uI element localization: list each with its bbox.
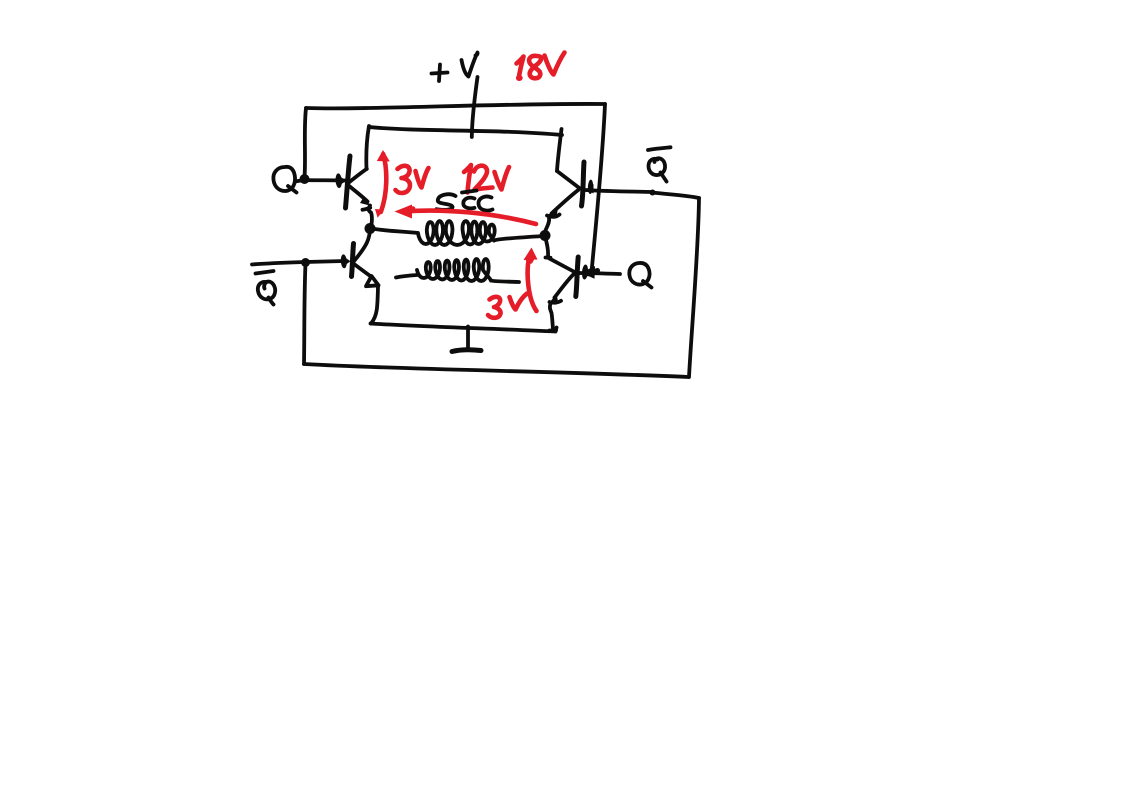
label Q (top-left input) — [273, 167, 295, 191]
label Qbar (left) overbar — [256, 271, 274, 274]
transistor Q3 base bar — [352, 244, 354, 277]
primary winding L1 right lead — [494, 236, 544, 241]
label V of +V — [462, 53, 478, 77]
annotation 12V digit 1 — [464, 165, 471, 193]
node B (right output node) — [540, 230, 551, 241]
transistor Q4 collector lead from node B — [545, 236, 548, 257]
transistor Q4 emitter — [555, 274, 575, 298]
wire Vcc inner rail right drop to Q2 collector — [557, 129, 562, 171]
wire Q2 emitter to node B — [545, 218, 550, 233]
label Qbar (left) Q — [258, 282, 275, 300]
wire Q label to node — [295, 180, 304, 182]
wire +V supply lead — [472, 77, 478, 137]
arrow ticks on Q4 base (bold) — [581, 264, 588, 279]
transistor Q1 base bar — [346, 156, 351, 208]
transistor Q3 collector (node A down) — [353, 229, 371, 263]
annotation 12V digit 2 — [474, 166, 493, 190]
label Qbar (top right) Q — [649, 158, 666, 175]
annotation 3V (bottom) letter v (checkmark) — [510, 294, 528, 310]
annotation red long arrow (sec/12V pointing to L1) — [403, 211, 536, 224]
transistor Q1 emitter — [347, 185, 367, 202]
wire Q-net left vertical (to Q input node) — [305, 108, 307, 177]
wire Qbar-net bottom rail — [304, 364, 688, 377]
transistor Q2 base bar — [582, 162, 585, 206]
wire Vcc inner rail top — [369, 127, 562, 135]
annotation red double arrow 3V (top-left) — [381, 154, 386, 212]
annotation 18V : digit 8 — [529, 56, 541, 78]
wire Q4 emitter down to ground rail — [550, 304, 557, 331]
arrow tick on Q1 base — [335, 173, 342, 188]
wire Q-net top rail — [306, 104, 605, 108]
transistor Q4 base bar — [576, 257, 578, 297]
annotation sec letter s (black) — [437, 194, 456, 210]
node A (left output node) — [365, 223, 376, 234]
annotation sec letter c — [478, 196, 492, 210]
arrow tick on Q2 base — [588, 179, 594, 194]
node Qbar input junction — [301, 258, 310, 267]
wire ground rail (inner bottom) — [371, 324, 557, 332]
wire Q3 base lead — [306, 261, 346, 262]
transistor Q1 collector — [347, 169, 367, 184]
secondary winding L2 coil — [417, 259, 491, 281]
wire Qbar input lead (left) — [252, 262, 304, 265]
wire Q2 base lead to Qbar rail — [585, 190, 653, 192]
annotation 3V (top) digit 3 — [396, 166, 410, 193]
label Q (bottom right) — [629, 263, 649, 285]
transistor Q2 collector — [557, 171, 579, 188]
primary winding L1 left lead — [375, 229, 418, 233]
wire Q-net right vertical (to Q4 base) — [592, 104, 606, 272]
junction dot on Qbar rail — [650, 190, 656, 196]
node Q input (junction of Q label wire, top rail, Q1 base) — [300, 174, 310, 184]
annotation red curved arrow to node B — [528, 256, 537, 311]
arrowhead Q1 emitter — [360, 197, 371, 206]
wire Qbar-net right vertical — [689, 198, 699, 377]
annotation 3V (top) letter V — [416, 168, 429, 188]
transistor Q3 emitter — [353, 263, 371, 277]
secondary winding L2 right lead — [491, 281, 519, 283]
wire Q4 base lead — [578, 273, 620, 274]
open arrowhead Q3 emitter — [366, 276, 379, 286]
transistor Q4 collector diagonal — [546, 258, 575, 273]
annotation 3V (bottom) digit 3 — [488, 297, 501, 318]
arrowhead Q4 emitter — [549, 294, 559, 305]
arrow tick on Q3 base — [340, 254, 347, 268]
annotation sec letter e (c with bar) — [462, 191, 477, 193]
ground symbol stem — [466, 327, 470, 348]
secondary winding L2 left lead — [396, 275, 417, 278]
label +V plus sign — [432, 73, 448, 74]
annotation 18V (red) : digit 1 — [517, 57, 524, 79]
annotation 18V : letter V — [545, 53, 565, 75]
arrowhead Q2 emitter — [547, 206, 559, 217]
wire Qbar-net left vertical — [304, 263, 306, 364]
annotation 12V letter V — [495, 167, 510, 190]
transistor Q2 emitter — [552, 190, 579, 214]
label Qbar (top right) overbar — [648, 147, 671, 150]
primary winding L1 coil — [418, 221, 495, 245]
ground symbol bar — [452, 350, 481, 352]
wire Q1 emitter to node A — [369, 206, 372, 229]
wire Vcc inner rail left drop to Q1 collector — [366, 126, 369, 169]
wire Q1 base lead — [305, 178, 346, 182]
wire Q3 emitter down to ground rail — [371, 287, 378, 324]
wire Qbar rail to right corner — [653, 193, 700, 199]
